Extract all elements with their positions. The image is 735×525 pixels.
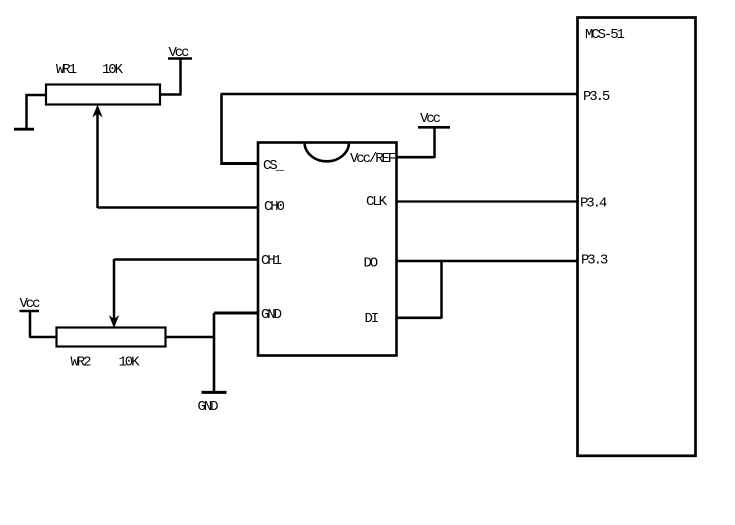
svg-text:GND: GND [198,399,219,415]
svg-text:Vcc: Vcc [420,111,441,127]
svg-text:DI: DI [365,311,378,327]
svg-text:P3.5: P3.5 [583,89,610,105]
svg-text:WR1: WR1 [56,62,77,78]
svg-text:GND: GND [261,307,282,323]
svg-text:10K: 10K [119,355,141,371]
svg-text:WR2: WR2 [71,355,92,371]
svg-text:CH1: CH1 [261,253,282,269]
svg-text:DO: DO [364,256,378,272]
svg-text:P3.3: P3.3 [581,253,608,269]
svg-text:Vcc: Vcc [20,296,41,312]
svg-text:10K: 10K [102,62,124,78]
svg-text:CH0: CH0 [264,199,285,215]
svg-text:Vcc/REF: Vcc/REF [350,151,396,167]
svg-text:MCS-51: MCS-51 [585,27,625,43]
svg-text:CLK: CLK [366,194,388,210]
svg-text:Vcc: Vcc [169,45,190,61]
svg-text:CS_: CS_ [263,158,285,174]
svg-text:P3.4: P3.4 [580,196,607,212]
